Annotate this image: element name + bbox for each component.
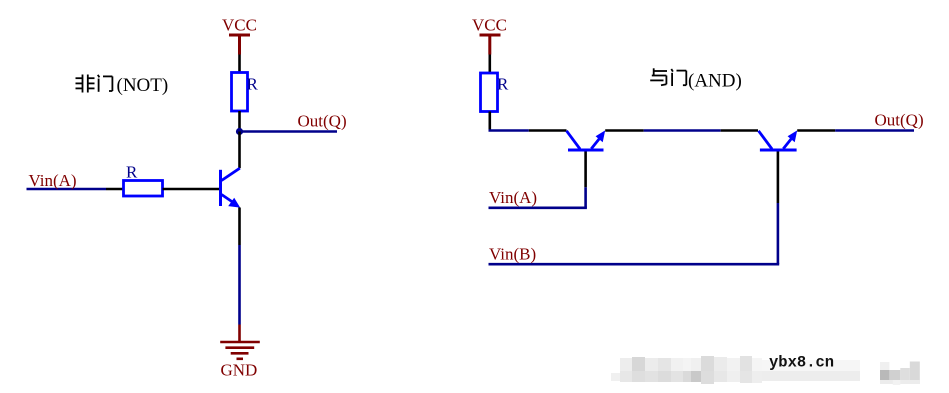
transistor Q3	[759, 130, 798, 150]
svg-text:VCC: VCC	[472, 16, 507, 35]
wire Q2 base to Vin(A)	[584, 187, 587, 208]
wire R2 to Q1 base	[163, 188, 220, 191]
resistor R1	[232, 73, 248, 112]
svg-text:Vin(B): Vin(B)	[489, 245, 536, 264]
resistor R3	[481, 73, 498, 112]
svg-text:Vin(A): Vin(A)	[29, 171, 77, 190]
wire VCC to R3	[488, 55, 491, 74]
hanzi 门	[98, 75, 100, 78]
wire R3 down	[488, 112, 491, 131]
wire Vin(B)	[489, 263, 780, 266]
wire GND lead	[238, 325, 241, 342]
transistor Q2	[567, 130, 606, 150]
svg-text:(NOT): (NOT)	[117, 75, 169, 96]
svg-text:(AND): (AND)	[688, 71, 742, 92]
svg-text:VCC: VCC	[222, 16, 257, 35]
svg-text:Out(Q): Out(Q)	[298, 112, 347, 131]
hanzi 门	[671, 69, 673, 72]
wire Q1 emitter pin	[238, 208, 241, 246]
node junction (collector node)	[236, 128, 243, 135]
wire Q3 base pin	[777, 152, 780, 204]
wire Vin(A) (AND)	[489, 207, 587, 210]
wire emitter to GND	[238, 245, 241, 325]
ground symbol GND	[220, 342, 260, 359]
wire Vin(A) input (NOT)	[27, 188, 107, 191]
VCC power symbol (AND)	[480, 35, 501, 55]
label title 与门(AND)	[650, 68, 686, 86]
wire Q3 emitter to Out(Q) (black part)	[797, 129, 835, 132]
wire Q2 emitter to Q3 collector (black part)	[605, 129, 644, 132]
wire to R2	[106, 188, 124, 191]
svg-text:R: R	[247, 75, 259, 94]
wire to Q2 collector (black part)	[529, 129, 567, 132]
svg-text:R: R	[126, 163, 138, 182]
wire to Q2 collector (navy part)	[489, 129, 529, 132]
wire node to Out(Q)	[240, 130, 338, 133]
hanzi 与	[653, 68, 655, 75]
wire VCC to R1	[238, 55, 241, 73]
wire node to Q1 collector	[238, 132, 241, 169]
label title 非门(NOT)	[76, 75, 113, 93]
hanzi 非	[82, 75, 84, 93]
svg-text:GND: GND	[221, 360, 258, 379]
svg-text:Out(Q): Out(Q)	[875, 111, 924, 130]
svg-text:ybx8.cn: ybx8.cn	[769, 354, 834, 372]
transistor Q1	[221, 168, 241, 207]
wire R1 to node	[238, 111, 241, 132]
svg-text:Vin(A): Vin(A)	[489, 188, 537, 207]
wire Q3 base to Vin(B)	[777, 203, 780, 264]
wire Out(Q) (navy part)	[835, 129, 914, 132]
watermark mosaic	[611, 356, 920, 385]
wire (navy part)	[644, 129, 721, 132]
VCC power symbol (NOT)	[229, 35, 250, 55]
wire (black part)	[721, 129, 758, 132]
svg-text:R: R	[497, 75, 509, 94]
resistor R2	[124, 181, 163, 197]
wire Q2 base pin	[584, 152, 587, 188]
